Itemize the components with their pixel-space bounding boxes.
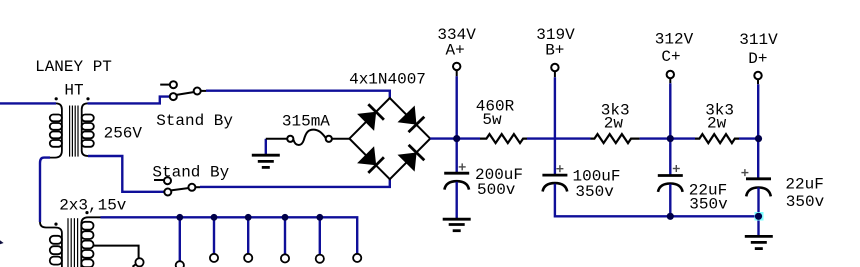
diode D1 (left to top): [357, 104, 384, 131]
terminal A+: [453, 63, 460, 70]
svg-text:5w: 5w: [482, 111, 502, 129]
artifact cyan highlight: [755, 212, 764, 221]
artifact left edge mark: [0, 240, 4, 244]
svg-text:500v: 500v: [477, 181, 516, 199]
diode D3 (left to bottom): [357, 146, 384, 173]
transformer T1 HT secondary winding: [82, 103, 94, 156]
svg-text:C+: C+: [661, 48, 680, 66]
svg-text:350v: 350v: [786, 193, 825, 211]
terminal LT 3: [244, 254, 252, 262]
terminal LT 4: [281, 254, 289, 262]
junction LT bus 4: [282, 214, 289, 221]
wire R1 to B+ node: [527, 137, 591, 139]
svg-text:A+: A+: [445, 41, 464, 59]
wire HT primary bottom to T2: [40, 158, 50, 222]
junction LT bus 2: [211, 214, 218, 221]
wire A+ vertical: [456, 76, 458, 173]
transformer T1 core: [70, 106, 78, 157]
terminal B+: [551, 64, 558, 71]
node D junction dot: [755, 135, 762, 142]
wire R3 to D+ node: [739, 137, 759, 139]
svg-text:2x3,15v: 2x3,15v: [59, 197, 127, 215]
svg-text:22uF: 22uF: [785, 175, 823, 193]
capacitor C2 100uF 350v: [542, 175, 567, 191]
junction LT bus 3: [245, 214, 252, 221]
T2 secondary winding: [81, 217, 100, 267]
junction LT bus 1: [176, 214, 183, 221]
terminal LT 5: [316, 255, 324, 263]
wire HT secondary top to switch S1: [88, 97, 170, 104]
ground (C1): [443, 219, 471, 231]
wire C4 bottom to ground: [757, 188, 759, 237]
svg-text:350v: 350v: [689, 196, 728, 214]
resistor R1 460R 5w: [480, 134, 527, 143]
artifact lever mark: [133, 264, 137, 267]
svg-text:2w: 2w: [604, 115, 624, 133]
capacitor C3 22uF 350v: [658, 176, 683, 192]
diode D4 (bottom to right): [398, 145, 425, 172]
wire C+ vertical: [669, 83, 671, 175]
svg-text:B+: B+: [545, 42, 564, 60]
bridge rectifier diamond: [349, 98, 430, 179]
transformer T1 HT primary winding: [50, 103, 62, 157]
wire HT secondary bottom to switch S2: [88, 156, 164, 192]
wire AC input left: [0, 102, 56, 104]
resistor R3 3k3 2w: [695, 134, 739, 143]
terminal (tap): [135, 258, 143, 266]
switch S1 Stand By: [160, 81, 206, 100]
junction LT bus 5: [316, 214, 323, 221]
switch S2 Stand By: [154, 177, 200, 195]
terminal LT 1: [176, 261, 184, 267]
wire S2 to bridge bottom: [200, 179, 390, 187]
wire R2 to C+ node: [640, 137, 695, 139]
wire bridge right to A+ node: [430, 137, 480, 139]
wire D+ vertical: [757, 84, 759, 179]
terminal LT 6: [353, 254, 361, 262]
terminal LT 2: [210, 254, 218, 262]
svg-text:4x1N4007: 4x1N4007: [349, 71, 426, 89]
wire LT bus: [101, 217, 358, 261]
node bus junction dot (C3): [667, 213, 674, 220]
resistor R2 3k3 2w: [591, 134, 640, 143]
diode D2 (top to right): [398, 106, 425, 133]
capacitor C4 22uF 350v: [746, 179, 771, 197]
svg-text:HT: HT: [64, 81, 83, 99]
terminal C+: [667, 71, 674, 78]
wire C3 bottom to bus: [669, 184, 671, 216]
phase dot T2 left: [54, 223, 57, 226]
svg-text:350v: 350v: [575, 183, 614, 201]
svg-text:Stand By: Stand By: [152, 164, 229, 182]
svg-text:315mA: 315mA: [282, 113, 330, 131]
phase dot T2 right: [85, 211, 88, 214]
T2 core: [68, 218, 78, 267]
node C junction dot: [667, 135, 674, 142]
svg-text:311V: 311V: [739, 31, 778, 49]
T2 secondary tap wire: [94, 246, 139, 259]
svg-text:312V: 312V: [655, 31, 694, 49]
T2 primary winding: [40, 222, 62, 267]
wire S1 to bridge top: [206, 91, 390, 99]
wire B+ vertical: [554, 77, 556, 175]
wire C1 to ground: [456, 182, 458, 219]
node A junction dot: [453, 135, 460, 142]
terminal D+: [754, 72, 761, 79]
ground (C4): [745, 236, 773, 248]
svg-text:2w: 2w: [707, 115, 727, 133]
svg-text:Stand By: Stand By: [156, 112, 233, 130]
ground (fuse): [252, 155, 280, 167]
svg-text:LANEY PT: LANEY PT: [35, 58, 112, 76]
node bus end junction dot: [755, 213, 762, 220]
wire C2 bottom to bus: [555, 184, 759, 217]
fuse F1 315mA: [265, 139, 267, 155]
capacitor C1 200uF 500v: [444, 173, 469, 189]
phase dot T1 left: [55, 97, 58, 100]
svg-text:D+: D+: [748, 50, 767, 68]
phase dot T1 right: [86, 97, 89, 100]
svg-text:256V: 256V: [104, 124, 143, 142]
